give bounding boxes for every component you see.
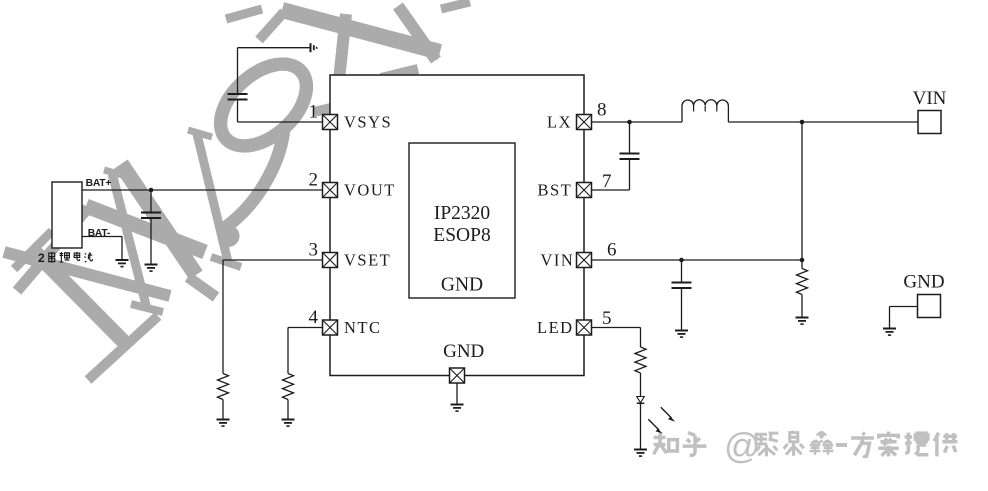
port GND box — [918, 295, 941, 318]
wire C1 top horizontal — [238, 47, 311, 49]
wire C2 vertical upper — [150, 190, 152, 213]
svg-text:5: 5 — [602, 308, 612, 329]
wire R1 to ground — [222, 400, 224, 420]
pin 6 VIN — [577, 253, 592, 268]
watermark letter J — [223, 128, 284, 229]
svg-text:GND: GND — [443, 341, 484, 362]
wire BAT- vertical — [121, 237, 123, 261]
svg-text:IP2320: IP2320 — [434, 203, 490, 224]
LED D1 — [637, 397, 645, 404]
svg-text:VOUT: VOUT — [344, 181, 396, 200]
ground R2 — [282, 420, 295, 427]
wire C2 vertical lower — [150, 218, 152, 265]
wire C3 to pin7 BST — [592, 189, 630, 191]
watermark letter N stroke group — [17, 208, 88, 291]
wire BAT- horizontal — [82, 236, 122, 238]
wire VIN vertical (from LX net) — [801, 122, 803, 260]
resistor R4 (LED) — [635, 347, 646, 373]
wire bottom pin to ground — [456, 383, 458, 405]
wire VSET vertical — [222, 260, 224, 374]
node C4 junction — [679, 258, 684, 263]
ground bottom pin — [451, 405, 464, 412]
wire BAT+ to pin2 VOUT — [82, 189, 323, 191]
wire inductor to VIN port — [728, 121, 918, 123]
watermark digit 1 — [336, 14, 346, 108]
svg-text:2: 2 — [38, 251, 45, 265]
svg-text:4: 4 — [309, 307, 319, 328]
wire pin4 NTC horizontal — [288, 327, 323, 329]
resistor R1 (VSET) — [218, 374, 229, 400]
pin 3 VSET — [323, 253, 338, 268]
wire C3 vertical lower — [629, 159, 631, 190]
port VIN box — [918, 111, 941, 134]
wire R3 to ground — [801, 295, 803, 318]
svg-text:GND: GND — [441, 275, 483, 296]
watermark letter I (rotated) — [33, 250, 124, 342]
watermark letter N (italic) — [112, 173, 147, 309]
svg-text:GND: GND — [903, 272, 944, 293]
capacitor C1 plates — [228, 94, 248, 100]
wire NTC vertical — [287, 328, 289, 374]
svg-text:NTC: NTC — [344, 318, 382, 337]
pin 5 LED — [577, 320, 592, 335]
watermark letter I fragment — [398, 6, 436, 60]
svg-text:BAT-: BAT- — [88, 228, 111, 239]
battery 2-cell pack rectangle — [52, 182, 82, 248]
wire pin5 LED horizontal — [592, 327, 641, 329]
ground C4 — [675, 331, 688, 338]
ground sideways (VSYS C1 return) — [311, 43, 317, 52]
ground GND port — [883, 329, 896, 336]
ground R3 — [796, 318, 809, 325]
svg-text:LX: LX — [547, 113, 572, 132]
wire pin8 LX to inductor — [592, 121, 683, 123]
wire GND port vertical — [889, 307, 891, 329]
node BAT+ junction — [149, 188, 154, 193]
resistor R2 (NTC) — [283, 374, 294, 400]
svg-text:6: 6 — [607, 240, 617, 261]
pin 8 LX — [577, 115, 592, 130]
LED emission arrow 1 — [661, 407, 676, 422]
IC U1 IP2320 outer body — [330, 75, 584, 376]
node LX junction — [627, 120, 632, 125]
bottom watermark zhihu text — [654, 425, 958, 466]
watermark diagonal fragment — [282, 10, 440, 52]
wire R3 vertical upper — [801, 260, 803, 269]
wire C1 vertical upper — [237, 48, 239, 94]
pin 9 GND (bottom) — [450, 368, 465, 383]
pin 1 VSYS — [323, 115, 338, 130]
svg-text:8: 8 — [597, 100, 607, 121]
wire C4 vertical upper — [681, 260, 683, 283]
wire R4 to LED — [640, 373, 642, 397]
wire R2 to ground — [287, 400, 289, 420]
svg-text:3: 3 — [309, 240, 319, 261]
wire pin3 VSET horizontal — [223, 259, 323, 261]
pin 4 NTC — [323, 320, 338, 335]
capacitor C3 (BST) — [620, 154, 640, 160]
svg-text:VSYS: VSYS — [344, 113, 392, 132]
capacitor C2 (battery) — [141, 213, 161, 219]
wire C3 vertical upper — [629, 122, 631, 154]
svg-text:BAT+: BAT+ — [86, 178, 112, 189]
wire C1 vertical lower — [237, 100, 239, 123]
wire pin1 VSYS to C1 — [238, 121, 324, 123]
wire pin6 VIN horizontal — [592, 259, 803, 261]
svg-text:7: 7 — [602, 171, 612, 192]
capacitor C4 (VIN) — [672, 283, 692, 289]
svg-text:VIN: VIN — [913, 88, 947, 109]
resistor R3 (VIN) — [797, 269, 808, 295]
LED emission arrow 2 — [648, 419, 663, 434]
node R3 junction — [800, 258, 805, 263]
ground LED — [634, 450, 647, 457]
wire C4 vertical lower — [681, 288, 683, 331]
pin 2 VOUT — [323, 183, 338, 198]
IC U1 inner label box — [409, 143, 515, 298]
wire LED to ground — [640, 403, 642, 449]
svg-text:VSET: VSET — [344, 251, 391, 270]
svg-text:LED: LED — [537, 318, 574, 337]
wire GND port — [890, 306, 918, 308]
inductor L1 — [682, 100, 728, 122]
ground C2 — [145, 265, 158, 272]
svg-text:VIN: VIN — [541, 251, 575, 270]
svg-text:@: @ — [724, 425, 761, 466]
node VIN-top junction — [800, 120, 805, 125]
svg-text:ESOP8: ESOP8 — [433, 225, 490, 246]
svg-text:BST: BST — [538, 181, 573, 200]
watermark digit 0 (ellipse) — [205, 48, 322, 162]
ground R1 — [217, 420, 230, 427]
svg-text:1: 1 — [309, 102, 319, 123]
ground BAT- — [116, 260, 129, 267]
wire LED vertical upper — [640, 328, 642, 348]
svg-text:2: 2 — [309, 170, 319, 191]
label 2串锂电池 — [38, 251, 92, 265]
pin 7 BST — [577, 183, 592, 198]
